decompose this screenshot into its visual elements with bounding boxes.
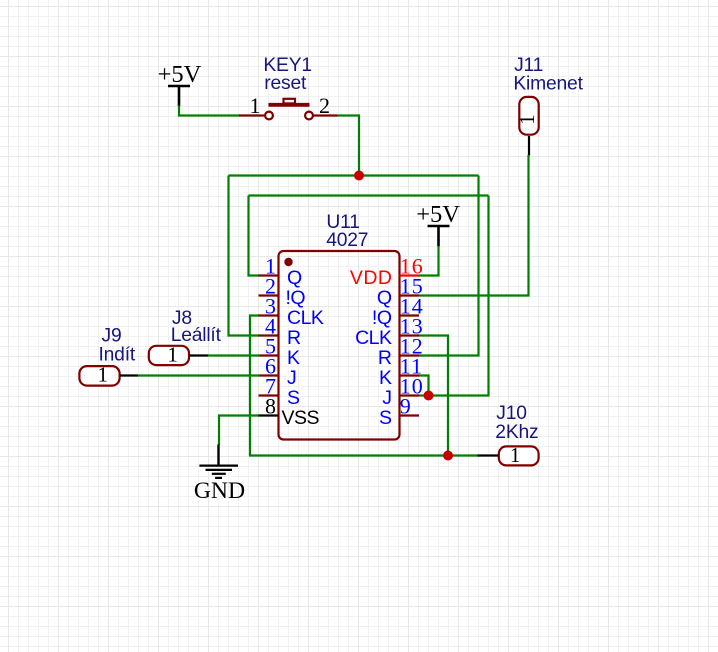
- junction dot pins 10-11: [424, 391, 434, 401]
- svg-text:J: J: [287, 367, 296, 389]
- wire reset net to pin 12 R: [419, 176, 479, 356]
- U11 pin 3 stub: [259, 314, 279, 316]
- wire Q1 feedback horizontal: [249, 194, 489, 196]
- U11 pin 10 stub: [400, 394, 420, 396]
- svg-text:1: 1: [515, 114, 539, 125]
- U11 pin 5 stub: [259, 354, 279, 356]
- connector J11 body: [519, 97, 538, 135]
- connector J11 pin stub: [528, 136, 530, 156]
- wire pin 13 CLK down to 2Khz: [419, 336, 448, 456]
- pushbutton KEY1 pin 2 contact circle: [305, 112, 313, 120]
- svg-text:GND: GND: [194, 478, 245, 504]
- wire J8 to pin 5 K: [208, 354, 260, 356]
- svg-text:Q: Q: [377, 287, 392, 309]
- power flag +5V (at U11) bar symbol: [428, 226, 450, 247]
- IC U11 pin 1 orientation dot: [284, 258, 292, 266]
- junction dot reset net: [354, 171, 364, 181]
- wire pin 11 K to junction: [419, 376, 429, 396]
- U11 pin 6 stub: [259, 374, 279, 376]
- connector J8 body: [149, 346, 189, 365]
- svg-text:K: K: [379, 367, 392, 389]
- svg-text:S: S: [287, 387, 300, 409]
- U11 pin 12 stub: [400, 354, 420, 356]
- pushbutton KEY1 pin 1 contact circle: [265, 112, 273, 120]
- svg-text:1: 1: [167, 343, 178, 367]
- svg-text:S: S: [379, 407, 392, 429]
- wire +5V to pin 16 VDD: [419, 246, 439, 276]
- wire clock net pin 3 CLK down to 2Khz: [250, 316, 479, 456]
- wire pin 8 VSS to GND: [219, 416, 259, 446]
- U11 pin 9 stub: [400, 414, 420, 416]
- svg-text:1: 1: [98, 363, 109, 387]
- svg-text:+5V: +5V: [158, 61, 202, 88]
- ground symbol bars: [199, 466, 238, 478]
- wire +5V to KEY1 pin1: [179, 106, 240, 116]
- U11 pin 16 stub (red): [400, 274, 419, 276]
- U11 pin 11 stub: [400, 374, 420, 376]
- IC U11 body: [279, 251, 400, 440]
- U11 pin 8 stub (black): [259, 414, 279, 416]
- svg-text:9: 9: [400, 393, 412, 418]
- svg-text:8: 8: [265, 393, 277, 418]
- svg-text:+5V: +5V: [416, 201, 460, 228]
- svg-text:!Q: !Q: [372, 307, 392, 329]
- U11 pin 15 stub: [400, 294, 420, 296]
- pushbutton KEY1 pin 2 stub: [313, 114, 338, 116]
- svg-text:K: K: [287, 347, 300, 369]
- wire KEY1 pin2 down to reset net: [338, 116, 360, 176]
- svg-text:VDD: VDD: [350, 267, 393, 289]
- svg-text:Q: Q: [287, 267, 302, 289]
- svg-text:R: R: [287, 327, 301, 349]
- U11 pin 13 stub: [400, 334, 420, 336]
- pushbutton KEY1 actuator bar: [269, 103, 310, 107]
- svg-text:CLK: CLK: [355, 327, 392, 349]
- svg-text:Leállít: Leállít: [171, 325, 222, 346]
- wire reset net to pin 4 R: [229, 176, 260, 336]
- svg-text:2: 2: [319, 93, 330, 118]
- ground symbol stem: [217, 445, 219, 466]
- wire reset net horizontal: [229, 174, 479, 176]
- svg-text:R: R: [378, 347, 392, 369]
- connector J9 pin stub: [120, 374, 138, 376]
- wire J11 to pin 15 Q: [419, 155, 529, 296]
- connector J10 pin stub: [478, 454, 499, 456]
- wire Q1 feedback down to pin 10 J: [419, 196, 489, 396]
- pushbutton KEY1 pin 1 stub: [239, 114, 265, 116]
- connector J9 body: [79, 366, 119, 386]
- power flag +5V (top-left) bar symbol: [168, 86, 190, 106]
- svg-text:!Q: !Q: [286, 287, 306, 309]
- U11 pin 14 stub: [400, 314, 420, 316]
- U11 pin 7 stub: [259, 394, 279, 396]
- svg-text:J: J: [382, 387, 391, 409]
- U11 pin 4 stub: [259, 334, 279, 336]
- svg-text:J10: J10: [496, 403, 527, 424]
- U11 pin 1 stub: [259, 274, 279, 276]
- svg-text:reset: reset: [264, 73, 307, 94]
- connector J10 body: [499, 446, 539, 465]
- connector J8 pin stub: [190, 354, 209, 356]
- junction dot clock net: [443, 451, 453, 461]
- svg-text:2Khz: 2Khz: [495, 422, 538, 443]
- wire Q1 feedback to pin 1 Q: [249, 196, 260, 276]
- wire J9 to pin 6 J: [138, 374, 260, 376]
- svg-text:4027: 4027: [326, 230, 368, 251]
- svg-text:VSS: VSS: [282, 407, 320, 429]
- svg-text:Kimenet: Kimenet: [513, 74, 583, 95]
- pushbutton KEY1 actuator button cap: [284, 99, 296, 104]
- svg-text:CLK: CLK: [287, 307, 324, 329]
- svg-text:1: 1: [510, 443, 521, 467]
- U11 pin 2 stub: [259, 294, 279, 296]
